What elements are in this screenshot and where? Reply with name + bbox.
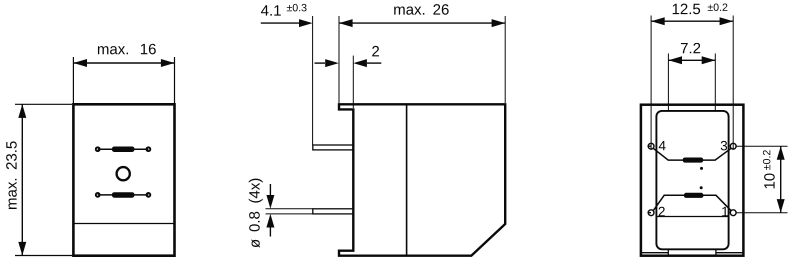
- dimension 4.1 arrow: [299, 19, 313, 27]
- pin label 3: [721, 141, 727, 151]
- center hole circle: [117, 167, 130, 180]
- dimension 12.5 left arrow: [651, 17, 665, 25]
- lower element dot: [700, 186, 703, 189]
- dimension text "max." (max. 26): [394, 7, 424, 15]
- fuse element row 1 right pin circle: [147, 147, 151, 151]
- dimension max.26 left arrow (pointing left): [339, 19, 353, 27]
- dimension 4.1 extension line (pin tip): [312, 16, 314, 145]
- tolerance text "±0.2" (12.5): [708, 3, 728, 11]
- tolerance text "±0.3": [287, 4, 307, 12]
- dimension 0.8 down arrow: [269, 184, 271, 202]
- front view base divider line: [73, 223, 174, 225]
- dimension 10 top arrow: [777, 146, 785, 160]
- pin 2 center tick: [648, 212, 652, 214]
- fuse element row 2 lead wire: [98, 194, 149, 196]
- fuse element row 2 right pin circle: [147, 193, 151, 197]
- lower element body bar: [684, 193, 704, 198]
- bottom view right foot line: [716, 252, 744, 254]
- dimension text "23.5" (rotated): [6, 141, 17, 169]
- bottom view outer outline: [641, 105, 744, 256]
- dimension text "26": [433, 4, 448, 15]
- dimension 10 bottom extension line: [736, 212, 788, 214]
- dimension 10 line: [780, 146, 782, 213]
- tolerance text "±0.2" (10, rotated): [763, 150, 771, 170]
- fuse element row 1 lead wire: [98, 148, 149, 150]
- dimension 12.5 right extension line (through pin 3): [732, 16, 734, 150]
- lower pin top edge extension line: [266, 208, 313, 210]
- dimension 4.1 leader line: [261, 22, 300, 24]
- pin 3 circle: [730, 143, 736, 149]
- dimension text "16": [141, 44, 156, 55]
- dimension text "4.1": [261, 5, 281, 15]
- dimension text "10" (rotated): [764, 173, 775, 188]
- dimension text "2": [372, 46, 379, 56]
- side view body outline with top lip, bottom foot and chamfer: [339, 104, 505, 255]
- lower element lead path (pins 2-1): [653, 195, 731, 210]
- bottom view right foot tick: [715, 249, 717, 255]
- dimension text "ø" (rotated): [251, 239, 259, 247]
- dimension max.23.5 extension line bottom: [15, 255, 73, 257]
- dimension max.26 left extension line: [338, 16, 340, 103]
- bottom view cavity divider: [656, 216, 728, 218]
- lower pin outline: [313, 209, 354, 214]
- pin 1 circle: [730, 210, 736, 216]
- side view internal divider: [406, 104, 408, 255]
- upper element dot: [700, 167, 703, 170]
- upper element lead path (pins 4-3): [653, 148, 731, 160]
- bottom view cavity rounded outline: [656, 111, 728, 249]
- fuse element row 2 body bar: [112, 192, 135, 198]
- dimension 12.5 line: [651, 20, 733, 22]
- dimension 2 right leader with arrow: [367, 62, 381, 64]
- dimension 10 bottom arrow: [777, 199, 785, 213]
- pin label 2: [659, 207, 665, 216]
- dimension text "max." (max. 23.5, rotated): [9, 179, 17, 209]
- pin 2 circle: [648, 210, 654, 216]
- dimension 7.2 left arrow: [668, 56, 682, 64]
- dimension max.23.5 bottom arrow: [18, 242, 26, 256]
- dimension max.23.5 top arrow: [18, 104, 26, 118]
- dimension max.26 right extension line: [504, 16, 506, 103]
- dimension 10 top extension line: [736, 145, 788, 147]
- dimension 7.2 left extension line: [667, 54, 669, 111]
- fuse element row 1 left pin circle: [96, 147, 100, 151]
- dimension max.16 left arrow: [73, 59, 87, 67]
- dimension max.16 extension line left: [72, 57, 74, 103]
- pin 4 circle: [648, 143, 654, 149]
- front view body outline: [73, 104, 174, 255]
- bottom view left foot tick: [667, 249, 669, 255]
- pin label 4: [659, 141, 666, 150]
- dimension 7.2 right arrow: [702, 56, 716, 64]
- upper pin outline: [313, 145, 354, 150]
- pin 4 center tick: [648, 145, 652, 147]
- dimension max.16 right arrow: [161, 59, 175, 67]
- bottom view left foot line: [641, 252, 668, 254]
- dimension 12.5 right arrow: [720, 17, 734, 25]
- dimension 7.2 line: [668, 59, 715, 61]
- dimension text "7.2": [681, 43, 700, 53]
- dimension max.16 extension line right: [174, 57, 176, 103]
- dimension max.26 line: [339, 22, 505, 24]
- dimension text "0.8" (rotated): [249, 212, 260, 232]
- dimension text "(4x)" (rotated): [249, 179, 263, 203]
- dimension text "max." (max. 16): [98, 46, 128, 54]
- fuse element row 2 left pin circle: [96, 193, 100, 197]
- dimension max.23.5 extension line top: [15, 103, 72, 105]
- dimension 2 left leader with arrow: [315, 62, 326, 64]
- fuse element row 1 body bar: [112, 147, 135, 153]
- dimension max.16 line: [73, 62, 174, 64]
- dimension 2 extension line: [352, 56, 354, 108]
- dimension 12.5 left extension line (through pin 4): [650, 16, 652, 150]
- lower pin bottom edge extension line: [266, 213, 313, 215]
- dimension 0.8 up arrow: [269, 221, 271, 237]
- pin label 1: [722, 207, 728, 216]
- dimension text "12.5": [673, 4, 700, 15]
- dimension max.23.5 line: [21, 104, 23, 255]
- dimension 7.2 right extension line: [714, 54, 716, 111]
- dimension max.26 right arrow: [492, 19, 506, 27]
- upper element body bar: [683, 158, 704, 163]
